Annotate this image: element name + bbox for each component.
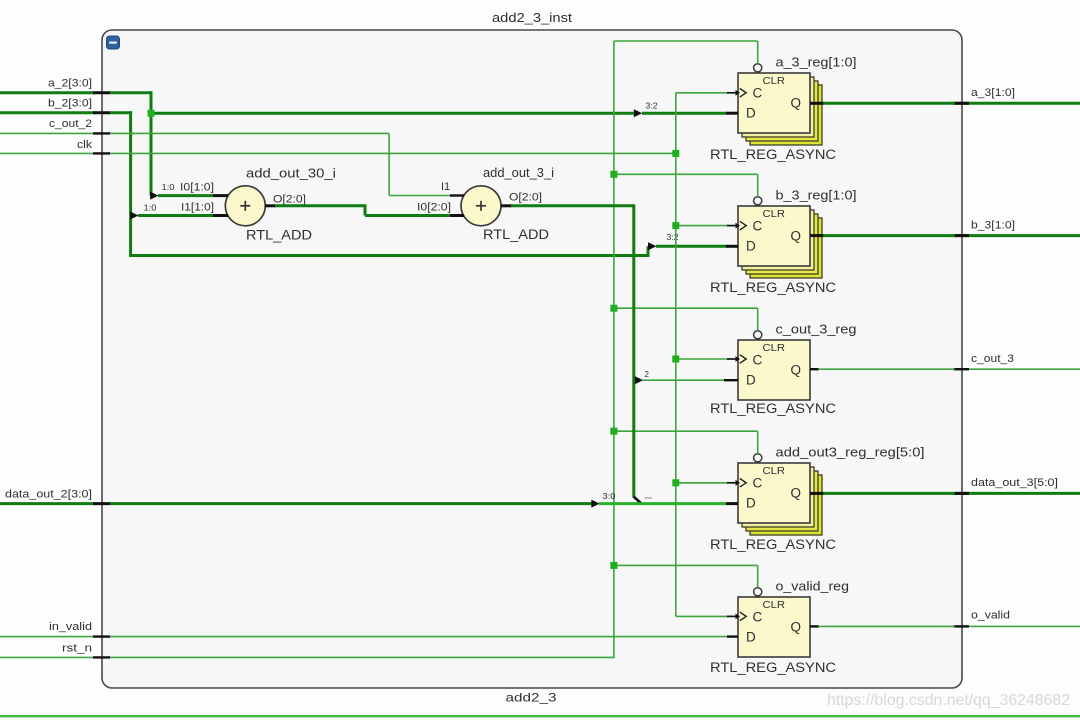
CLR bubble of o_valid_reg (754, 588, 762, 596)
svg-text:C: C (753, 610, 763, 625)
svg-text:a_3[1:0]: a_3[1:0] (971, 87, 1015, 99)
wire rst_n branch to CLR bubble 4 (614, 431, 758, 453)
wire add_out_3 output (501, 204, 634, 497)
node clk junction add_out3 (672, 479, 679, 486)
svg-text:https://blog.csdn.net/qq_36248: https://blog.csdn.net/qq_36248682 (827, 692, 1070, 709)
svg-text:c_out_3_reg: c_out_3_reg (776, 323, 857, 337)
svg-text:o_valid: o_valid (971, 610, 1010, 622)
svg-text:a_3_reg[1:0]: a_3_reg[1:0] (776, 56, 857, 70)
svg-text:I0[1:0]: I0[1:0] (180, 181, 214, 193)
wire a_2 horizontal entry (110, 91, 153, 94)
output pin b_3[1:0] (954, 220, 1080, 236)
svg-text:I1[1:0]: I1[1:0] (181, 201, 214, 213)
svg-text:3:2: 3:2 (646, 102, 659, 111)
svg-text:C: C (753, 219, 763, 234)
svg-text:clk: clk (77, 139, 93, 151)
svg-text:data_out_3[5:0]: data_out_3[5:0] (971, 477, 1058, 489)
CLR bubble of add_out3_reg_reg (754, 454, 762, 462)
input pin c_out_2 (0, 118, 110, 133)
output pin o_valid (954, 610, 1080, 627)
svg-text:CLR: CLR (763, 343, 786, 354)
wire concat to add_out3_reg_reg D (599, 502, 738, 505)
wire add_out_3[2] to c_out_3_reg D (635, 376, 738, 384)
svg-text:D: D (746, 629, 756, 644)
svg-text:O[2:0]: O[2:0] (509, 192, 542, 204)
wire rst_n branch to CLR bubble 1 (614, 41, 758, 64)
svg-text:o_valid_reg: o_valid_reg (776, 580, 850, 594)
svg-text:RTL_REG_ASYNC: RTL_REG_ASYNC (710, 280, 836, 295)
wire c_out_2 to adder2 I1 (110, 133, 464, 195)
adder U2 add_out_3_i (461, 186, 501, 226)
svg-text:in_valid: in_valid (49, 621, 92, 633)
output pin a_3[1:0] (954, 87, 1080, 103)
wire merge diagonal into data_out concat (634, 497, 642, 504)
wire clk branch to C input 3 (676, 355, 746, 364)
input pin clk (0, 139, 110, 153)
wire rst_n branch to CLR bubble 3 (614, 308, 758, 330)
wire b_2 vertical drop (129, 111, 132, 257)
svg-text:add_out_3_i: add_out_3_i (483, 165, 554, 180)
svg-text:RTL_REG_ASYNC: RTL_REG_ASYNC (710, 660, 836, 675)
CLR bubble of b_3_reg (754, 197, 762, 205)
wire o_valid_reg Q output (810, 625, 955, 627)
svg-text:RTL_REG_ASYNC: RTL_REG_ASYNC (710, 401, 836, 416)
svg-text:a_2[3:0]: a_2[3:0] (48, 78, 92, 90)
svg-text:Q: Q (791, 619, 802, 634)
svg-text:C: C (753, 353, 763, 368)
register o_valid_reg (RTL_REG_ASYNC) (738, 597, 810, 657)
svg-text:D: D (746, 238, 756, 253)
wire a_2 vertical drop (150, 91, 153, 195)
svg-text:I1: I1 (441, 181, 450, 193)
wire b_3_reg Q output (810, 234, 955, 237)
slice dash label (645, 497, 653, 499)
register c_out_3_reg (RTL_REG_ASYNC) (738, 340, 810, 400)
wire data_out_2 run (110, 500, 600, 508)
wire clk branch to C input 2 (676, 221, 746, 230)
svg-text:2: 2 (645, 370, 650, 379)
wire c_out_3_reg Q output (810, 368, 955, 370)
node clk junction at pin (672, 150, 679, 157)
svg-text:add_out3_reg_reg[5:0]: add_out3_reg_reg[5:0] (776, 446, 925, 460)
output pin c_out_3 (954, 353, 1080, 369)
node rst_n junction (610, 428, 617, 435)
wire a_3_reg Q output (810, 102, 955, 105)
svg-text:3:0: 3:0 (603, 492, 617, 501)
wire rst_n branch to CLR bubble 5 (614, 565, 758, 587)
svg-text:CLR: CLR (763, 466, 786, 477)
wire b_2[1:0] to adder I1 (130, 212, 228, 220)
svg-text:O[2:0]: O[2:0] (273, 193, 306, 205)
input pin in_valid (0, 621, 110, 637)
module box add2_3_inst (102, 30, 962, 688)
wire rst_n horizontal entry (110, 656, 614, 658)
wire clk branch to C input 4 (676, 479, 746, 488)
wire b_2[3:2] to b_3_reg D (648, 242, 738, 250)
svg-text:CLR: CLR (763, 600, 786, 611)
svg-text:C: C (753, 476, 763, 491)
node junction a_2 (148, 110, 155, 117)
wire b_2 horizontal entry (110, 111, 132, 114)
svg-text:Q: Q (791, 95, 802, 110)
node rst_n junction (610, 305, 617, 312)
svg-text:b_3_reg[1:0]: b_3_reg[1:0] (776, 189, 857, 203)
svg-text:CLR: CLR (763, 209, 786, 220)
svg-text:D: D (746, 372, 756, 387)
register add_out3_reg_reg (RTL_REG_ASYNC) (738, 463, 822, 535)
bottom green line (0, 715, 1080, 717)
svg-text:c_out_3: c_out_3 (971, 353, 1014, 365)
svg-text:CLR: CLR (763, 76, 786, 87)
wire clk branch to C input 5 (676, 612, 746, 621)
wire clk horizontal entry (110, 152, 676, 154)
svg-text:Q: Q (791, 485, 802, 500)
svg-text:rst_n: rst_n (62, 643, 92, 655)
node clk junction c_out_3 (672, 356, 679, 363)
svg-text:add_out_30_i: add_out_30_i (246, 166, 336, 181)
CLR bubble of a_3_reg (754, 64, 762, 72)
wire clk vertical trunk (675, 93, 677, 617)
svg-text:add2_3: add2_3 (506, 691, 557, 705)
node clk junction b_3 (672, 222, 679, 229)
adder U1 add_out_30_i (225, 186, 265, 226)
svg-text:c_out_2: c_out_2 (49, 118, 92, 130)
svg-text:D: D (746, 495, 756, 510)
wire rst_n branch to CLR bubble 2 (614, 174, 758, 196)
wire add_out_30 to adder2 I0 (265, 204, 464, 215)
register b_3_reg (RTL_REG_ASYNC) (738, 206, 822, 278)
svg-text:RTL_REG_ASYNC: RTL_REG_ASYNC (710, 537, 836, 552)
wire a_2[1:0] to adder I0 (150, 192, 228, 200)
svg-text:C: C (753, 86, 763, 101)
svg-text:b_2[3:0]: b_2[3:0] (48, 98, 92, 110)
wire in_valid to o_valid_reg D (110, 636, 738, 638)
svg-text:3:2: 3:2 (667, 233, 680, 242)
wire clk branch to C input 1 (676, 89, 746, 98)
input pin data_out_2[3:0] (0, 489, 110, 504)
input pin b_2[3:0] (0, 98, 110, 113)
wire a_2[3:2] to a_3_reg D (151, 109, 738, 117)
node rst_n junction (610, 171, 617, 178)
svg-text:RTL_ADD: RTL_ADD (246, 228, 312, 243)
input pin rst_n (0, 643, 110, 658)
output pin data_out_3[5:0] (954, 477, 1080, 493)
wire b_2 long bottom run (129, 246, 648, 257)
input pin a_2[3:0] (0, 78, 110, 93)
wire add_out3_reg_reg Q output (810, 492, 955, 495)
svg-text:add2_3_inst: add2_3_inst (492, 10, 572, 25)
collapse icon (107, 36, 120, 49)
svg-text:Q: Q (791, 228, 802, 243)
svg-text:1:0: 1:0 (144, 204, 158, 213)
svg-text:RTL_REG_ASYNC: RTL_REG_ASYNC (710, 147, 836, 162)
svg-text:data_out_2[3:0]: data_out_2[3:0] (5, 489, 92, 501)
svg-text:1:0: 1:0 (162, 183, 176, 192)
svg-text:I0[2:0]: I0[2:0] (417, 201, 451, 213)
svg-text:RTL_ADD: RTL_ADD (483, 227, 549, 242)
register a_3_reg (RTL_REG_ASYNC) (738, 73, 822, 145)
CLR bubble of c_out_3_reg (754, 331, 762, 339)
svg-text:D: D (746, 105, 756, 120)
svg-text:Q: Q (791, 362, 802, 377)
wire rst_n vertical trunk (613, 41, 615, 658)
node rst_n junction (610, 562, 617, 569)
svg-text:b_3[1:0]: b_3[1:0] (971, 220, 1015, 232)
